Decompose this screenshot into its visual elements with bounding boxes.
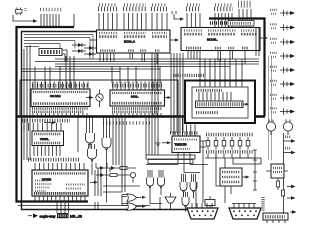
nor gate G12 <box>283 120 292 136</box>
wire: cluster drops <box>96 163 122 183</box>
connector J2 (header) <box>39 49 62 56</box>
LED D10 <box>206 137 210 150</box>
wire: J2 right exits <box>62 50 67 62</box>
U1 bottom pins <box>100 53 157 64</box>
connector J4 (D-sub) <box>187 208 218 219</box>
U4 bottom pin labels <box>112 102 162 105</box>
U2 bottom pins <box>188 51 245 65</box>
section frame around U3/U4 <box>20 80 178 116</box>
U6 top pin labels <box>34 172 86 175</box>
xor gate G7 <box>190 182 197 195</box>
wire: bundle corner drops <box>60 35 93 59</box>
wire: LED grid bottom rail <box>205 154 256 159</box>
LED D11 <box>214 137 218 150</box>
capacitor C1 <box>205 196 215 209</box>
regulator U9 <box>266 164 288 178</box>
pin function labels above U2 <box>187 3 232 6</box>
pin labels above J1 <box>40 8 62 12</box>
value label near Y1 <box>24 9 27 11</box>
output node OUT2 <box>270 24 295 30</box>
wire: U7 bottom pins <box>178 153 190 173</box>
wire with arrow (clock feed) <box>172 11 184 21</box>
wire: mid-page long verticals <box>113 117 125 192</box>
pin labels above U2 <box>186 7 201 11</box>
op-amp U2 body <box>181 28 260 51</box>
nand gate G3 <box>88 149 97 164</box>
U5 top pin labels <box>34 133 61 135</box>
LED D15 <box>246 137 250 150</box>
diode D7 <box>100 173 104 177</box>
wire: right column spine <box>283 133 286 214</box>
wire: inner thin frame <box>22 32 197 210</box>
or gate G9 <box>127 194 146 202</box>
wire: U1 left input <box>90 39 97 41</box>
output node OUT4 <box>270 53 295 59</box>
wire arrow out of U1 right <box>170 38 179 41</box>
U3 bottom pins <box>33 113 87 116</box>
resistor network RN1 <box>228 21 254 27</box>
wire arrow out of U8 <box>242 175 250 178</box>
U1 pin names row <box>99 35 167 38</box>
LED array labels row2 <box>206 150 254 153</box>
diode D2 <box>72 49 86 53</box>
latch U5 body <box>32 131 64 146</box>
output node OUT3 <box>270 39 295 45</box>
U5 bottom pin labels <box>34 142 61 144</box>
diode D4 <box>84 52 96 56</box>
J4 top pins <box>192 203 212 208</box>
wire arrow out of U2 right <box>260 36 268 39</box>
buzzer driver U8 <box>220 168 242 186</box>
U3 top pins <box>33 82 88 90</box>
U5 bottom pins <box>34 146 60 157</box>
wire: thick mid horizontal divider <box>16 115 265 117</box>
U5 top pins <box>24 123 61 131</box>
U2 bottom pin labels <box>186 47 248 49</box>
resistor R3 <box>277 178 280 190</box>
wire: cluster rail B <box>96 174 136 176</box>
net labels above U5 <box>22 119 70 123</box>
wire: top cluster D feeds <box>256 27 259 56</box>
microcontroller U4 body <box>110 90 165 106</box>
nand gate G1 <box>86 133 95 148</box>
label column left of box <box>261 197 264 211</box>
wire arrow at U6 right <box>90 181 98 184</box>
or gate G10 <box>127 203 146 211</box>
net labels below U5 <box>28 158 80 162</box>
wire: gate outputs <box>150 190 194 212</box>
ground GND1 <box>156 138 161 146</box>
wire arrow into section <box>44 121 56 124</box>
diode D6 <box>111 166 115 170</box>
output node OUT8 <box>270 108 295 114</box>
U6 bottom pin labels <box>34 192 86 195</box>
diode D5 <box>100 166 104 170</box>
LED D13 <box>230 137 234 150</box>
wire: mid vertical bus <box>146 53 183 155</box>
node: eagle-way strip arrow <box>28 214 38 219</box>
U2 top pins <box>187 9 251 28</box>
xor gate G5 <box>158 178 165 191</box>
wire: J3 feed verticals <box>199 92 231 101</box>
U6 right pin labels <box>66 185 85 189</box>
RAM U3 body <box>31 89 90 107</box>
wire: U7 bottom routing <box>146 165 208 173</box>
xor gate G6 <box>180 182 187 195</box>
wire: verticals under U6 region <box>95 170 101 210</box>
U1 top pins <box>99 13 167 30</box>
net labels above BR1 <box>173 74 205 77</box>
pin labels above U4 <box>112 84 162 88</box>
U6 top pins <box>35 163 84 170</box>
net labels under U3 <box>32 109 88 112</box>
output node OUT6 <box>270 81 295 87</box>
wire: bottom buses <box>18 202 150 213</box>
net labels inside BR1 bottom <box>196 111 218 114</box>
wire: thick frame top-right and right edge <box>209 19 265 117</box>
wire: drops from U2 into BR1 <box>200 59 242 87</box>
connector J1 pins <box>41 14 59 26</box>
diode D3 <box>84 46 96 50</box>
pin labels above U3 <box>32 84 88 88</box>
svg-text:MC146..: MC146.. <box>207 38 218 42</box>
net labels under U4 <box>112 109 162 112</box>
output node OUT5 <box>270 67 295 73</box>
wire arrow into U7 <box>162 141 171 144</box>
connector J3 (LCD pin row) <box>196 101 244 108</box>
U1 bottom pin labels <box>100 49 160 51</box>
transistor Q2 <box>130 172 135 182</box>
U2 pin numbers row <box>184 29 257 31</box>
resistor R1 <box>120 167 127 170</box>
output node OUT1 <box>270 10 295 16</box>
U6 bottom pins <box>35 196 85 202</box>
U2 pin names row <box>184 33 257 36</box>
output node OUT13 <box>290 210 297 214</box>
U4 bottom pins <box>113 113 161 116</box>
display module frame (thick) <box>185 81 255 124</box>
output node OUT10 <box>284 148 296 154</box>
U7 inner pin labels <box>174 140 198 150</box>
wire: left vertical bus <box>24 45 30 160</box>
svg-text:80C5..: 80C5.. <box>131 95 139 98</box>
wire: misc top-left risers <box>66 56 74 88</box>
svg-text:MC34..A: MC34..A <box>124 40 135 44</box>
wire: bus drops to row2 <box>35 67 160 89</box>
svg-text:eagle-way: eagle-way <box>40 214 56 218</box>
resistor R4 <box>282 190 285 196</box>
wire: connector area links <box>151 165 203 210</box>
wire: thick outer frame left/top/bottom <box>17 27 89 202</box>
xor gate G4 <box>147 178 154 191</box>
net labels inside BR1 top <box>196 89 222 92</box>
wire: gate inputs top <box>148 170 196 197</box>
svg-text:74HC5..: 74HC5.. <box>40 138 49 141</box>
net labels above U7 <box>170 131 198 135</box>
LED D12 <box>222 137 226 150</box>
wire: address bus lines <box>22 69 161 72</box>
output node OUT9 <box>284 137 296 143</box>
nor gate G11 <box>266 120 275 136</box>
pin function labels above U1 <box>99 3 167 6</box>
svg-text:TMRC58: TMRC58 <box>175 143 187 147</box>
xor gate G8 <box>182 197 189 210</box>
U4 top pin labels <box>112 92 162 94</box>
label plate (dark) <box>57 213 69 218</box>
label box right of J5 <box>263 213 288 223</box>
wire: U7 right pins <box>200 141 206 165</box>
diode D1 <box>72 43 86 47</box>
connector J5 (D-sub) <box>229 208 261 219</box>
timer U7 body <box>172 136 200 153</box>
U6 left pin name column <box>35 181 52 192</box>
wire: long vertical pair <box>269 56 272 160</box>
wire: nested bus corners <box>24 35 93 47</box>
svg-text:MR...08: MR...08 <box>70 214 82 218</box>
resistor R2 <box>110 174 117 177</box>
U4 top pins <box>113 82 161 91</box>
cpu U6 body <box>32 170 88 196</box>
wire: U8 surroundings <box>216 153 231 203</box>
wire: section frame right edge <box>77 117 79 152</box>
wire with arrow from Y1 <box>13 15 38 23</box>
LED D14 <box>238 137 242 150</box>
output node OUT11 <box>287 185 296 189</box>
wire: horizontal loop B <box>148 160 193 164</box>
J5 top pins <box>232 203 256 208</box>
wire: cluster rail A <box>96 167 136 169</box>
svg-text:CM RAM: CM RAM <box>50 95 61 98</box>
wire: G9 G10 inputs <box>122 195 127 206</box>
LED array labels row1 <box>206 133 254 137</box>
output node OUT7 <box>270 95 295 101</box>
op-amp U1 body <box>97 30 171 53</box>
crystal Y1 <box>16 8 23 16</box>
transistor Q1 <box>86 90 103 108</box>
wire: data bus lines <box>35 59 259 67</box>
U1 pin numbers row <box>99 32 167 34</box>
display module inner frame <box>192 87 248 118</box>
pin labels above U1 <box>98 7 118 11</box>
wire: gate outputs routing <box>90 148 107 203</box>
wire: verticals into gate cluster <box>87 117 110 149</box>
wire arrow J3 out <box>243 103 249 106</box>
wire: J1 bus <box>38 14 74 27</box>
U7 top pins <box>174 118 195 136</box>
wire arrow out of U4 <box>165 96 172 99</box>
wire: right pin column <box>253 150 257 190</box>
output node OUT12 <box>287 196 296 200</box>
wire: BR1 left verticals <box>171 80 183 133</box>
wire: bottom long horizontals <box>103 186 140 192</box>
funnel (wire bundle collector) <box>165 193 176 210</box>
U3 bottom pin labels <box>33 102 88 105</box>
net labels below divider (middle) <box>103 121 150 125</box>
U3 top pin labels <box>33 91 88 93</box>
wire: horizontal loop A <box>146 155 195 159</box>
net name labels row above U2 <box>210 21 236 25</box>
nand gate G2 <box>102 138 111 153</box>
wire: loop rectangle <box>233 158 261 164</box>
